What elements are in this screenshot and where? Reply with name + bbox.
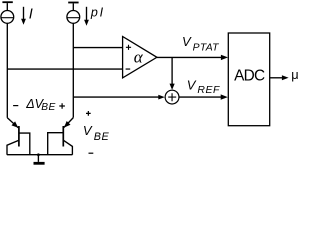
current source I2 [67, 11, 80, 24]
op-amp U1 (gain alpha) [123, 37, 157, 78]
svg-text:pI: pI [90, 6, 105, 20]
transistor Q2 : base bar [62, 126, 64, 147]
label -dVbe+ : minus [13, 105, 18, 107]
wire to op-amp + input [73, 47, 122, 49]
label V_REF [187, 77, 220, 96]
ground stub [37, 155, 39, 162]
label +Vbe- : plus [86, 111, 91, 116]
ADC block [228, 33, 269, 126]
wire ADC output [270, 77, 283, 79]
ground rail wire [7, 154, 73, 156]
arrowhead into ADC (Vptat) [221, 55, 228, 60]
junction dot on ground rail [37, 153, 40, 156]
wire right branch (emitter of Q2) [72, 23, 74, 117]
minus sign in op-amp [126, 68, 131, 70]
current source I1 [1, 11, 14, 24]
arrowhead into summer (top) [170, 84, 175, 90]
label V_PTAT [182, 34, 219, 53]
svg-text:ADC: ADC [234, 68, 265, 85]
wire supply to current source I1 [6, 3, 8, 11]
current direction arrow for I [21, 7, 26, 25]
svg-text:V: V [182, 34, 192, 49]
ground symbol [34, 162, 45, 165]
plus sign in op-amp [126, 45, 131, 50]
label Vbe [83, 123, 110, 143]
wire supply to current source I2 [72, 3, 74, 10]
svg-text:V: V [83, 123, 93, 138]
transistor Q1 : base tie to ground rail [19, 133, 30, 155]
wire Vptat (amp output to ADC) [157, 56, 222, 58]
wire dVbe to op-amp - input [7, 68, 122, 70]
label +Vbe- : minus [89, 152, 94, 154]
arrowhead into summer (left) [158, 95, 165, 100]
label -dVbe+ : plus [59, 103, 65, 109]
arrowhead into ADC (Vref) [221, 94, 228, 99]
wire left branch (emitter of Q1) [6, 23, 8, 118]
transistor Q2 : base tie to ground rail [48, 133, 64, 155]
svg-text:REF: REF [197, 85, 220, 96]
current direction arrow for pI [84, 7, 89, 26]
transistor Q2 : collector [63, 140, 72, 155]
supply bar (VDD tick) over I2 [68, 2, 78, 4]
svg-text:PTAT: PTAT [193, 42, 220, 53]
wire from Vptat node down to summer [171, 57, 173, 84]
transistor Q1 : emitter wire [7, 118, 18, 128]
transistor Q1 : emitter arrowhead [12, 121, 19, 127]
wire Vbe from right branch to summer [73, 96, 158, 98]
transistor Q2 : emitter wire [64, 118, 73, 128]
svg-text:I: I [29, 7, 33, 23]
svg-text:V: V [187, 77, 197, 92]
label dVbe [25, 97, 55, 113]
transistor Q1 : base bar [18, 126, 20, 147]
svg-text:α: α [134, 48, 144, 67]
svg-text:BE: BE [94, 131, 110, 143]
arrowhead ADC output [282, 75, 289, 80]
svg-text:μ: μ [291, 67, 298, 82]
transistor Q1 : collector [7, 140, 19, 155]
summing junction [165, 90, 179, 104]
transistor Q2 : emitter arrowhead [64, 121, 71, 128]
svg-text:BE: BE [41, 102, 55, 113]
wire summer output (Vref) to ADC [179, 96, 221, 98]
supply bar (VDD tick) over I1 [2, 1, 12, 3]
